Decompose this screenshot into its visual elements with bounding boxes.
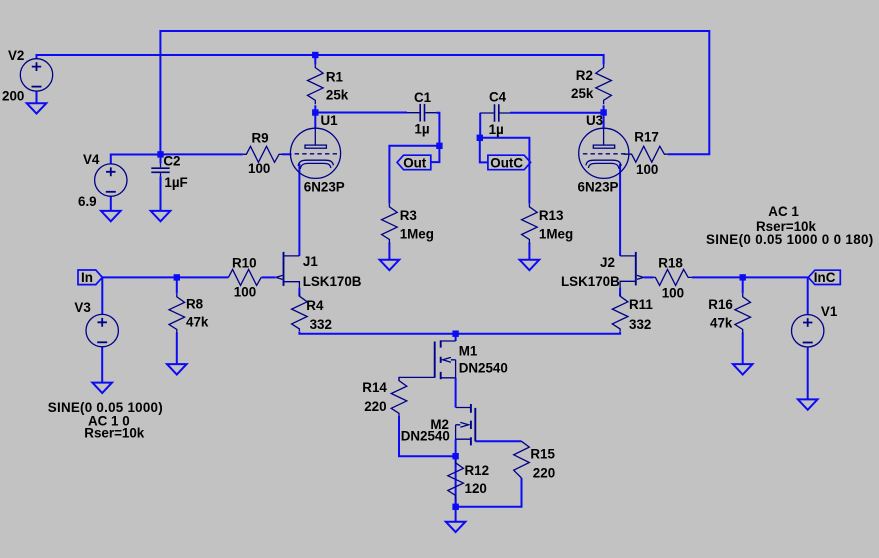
svg-text:R3: R3 bbox=[400, 208, 417, 223]
svg-text:120: 120 bbox=[465, 481, 487, 496]
capacitor C4 bbox=[480, 104, 510, 122]
svg-text:R12: R12 bbox=[465, 463, 490, 478]
wire In flag to R10 bbox=[102, 276, 228, 278]
resistor R2 bbox=[596, 65, 612, 105]
wire V4 to ground bbox=[110, 197, 112, 211]
junction InC node bbox=[740, 274, 746, 280]
svg-text:U3: U3 bbox=[586, 113, 603, 128]
wire M2 gate to R15 bbox=[475, 440, 521, 442]
wire Out node to R3 bbox=[389, 146, 439, 204]
svg-text:200: 200 bbox=[2, 89, 24, 104]
wire R18 to InC flag bbox=[692, 276, 808, 278]
wire OutC node to R13 bbox=[480, 138, 530, 204]
ground R13 bbox=[520, 260, 540, 270]
resistor R3 bbox=[382, 204, 398, 244]
triode U3 6N23P bbox=[579, 128, 629, 178]
svg-text:V3: V3 bbox=[74, 300, 90, 315]
svg-text:R13: R13 bbox=[539, 208, 564, 223]
transistor J2 LSK170B bbox=[620, 252, 643, 288]
wire R12 bottom bbox=[455, 499, 457, 522]
ground R3 bbox=[380, 260, 400, 270]
wire C4 right to node plate U3 bbox=[510, 112, 604, 114]
svg-text:Rser=10k: Rser=10k bbox=[84, 426, 144, 441]
wire R10 to J1 gate bbox=[262, 276, 276, 278]
svg-text:1Meg: 1Meg bbox=[400, 226, 434, 241]
svg-text:R15: R15 bbox=[530, 447, 555, 462]
wire M1 drain lead bbox=[455, 334, 457, 341]
svg-text:DN2540: DN2540 bbox=[401, 429, 450, 444]
node flag Out bbox=[397, 155, 431, 170]
resistor R12 bbox=[448, 460, 464, 500]
transistor M2 DN2540 bbox=[456, 404, 476, 445]
wire V2 to ground bbox=[36, 91, 38, 103]
svg-text:220: 220 bbox=[533, 465, 555, 480]
resistor R11 bbox=[612, 293, 628, 331]
node flag InC bbox=[808, 270, 840, 285]
svg-text:47k: 47k bbox=[710, 316, 733, 331]
node flag In bbox=[78, 270, 102, 285]
wire source rail R4-R11 bbox=[299, 332, 620, 334]
wire InC node to R16 bbox=[742, 277, 744, 293]
wire node plate U1 to C1 bbox=[315, 112, 407, 114]
transistor J1 LSK170B bbox=[276, 252, 300, 288]
wire R8 to ground bbox=[176, 333, 178, 365]
capacitor C2 bbox=[151, 164, 169, 177]
ground R8 bbox=[167, 364, 187, 374]
svg-text:R2: R2 bbox=[576, 68, 593, 83]
wire R2 bottom lead bbox=[603, 105, 605, 112]
wire M2 source down bbox=[455, 439, 457, 459]
wire R12 node to R15 node bbox=[455, 456, 457, 507]
svg-text:V1: V1 bbox=[821, 304, 838, 319]
wire In flag to V3 bbox=[101, 277, 103, 314]
svg-text:R10: R10 bbox=[232, 256, 257, 271]
resistor R14 bbox=[391, 378, 407, 418]
svg-text:Out: Out bbox=[403, 155, 427, 170]
wire In node to R8 bbox=[176, 277, 178, 293]
wire J2 source to R11 bbox=[619, 288, 621, 297]
junction U3 plate node bbox=[600, 109, 606, 115]
svg-text:J2: J2 bbox=[600, 255, 615, 270]
svg-text:J1: J1 bbox=[303, 254, 318, 269]
wire R1 bottom lead bbox=[314, 105, 316, 112]
svg-text:1µF: 1µF bbox=[164, 175, 187, 190]
junction M2 source node bbox=[452, 453, 458, 459]
resistor R13 bbox=[522, 204, 538, 244]
svg-text:In: In bbox=[81, 270, 93, 285]
svg-text:R4: R4 bbox=[306, 298, 324, 313]
ground C2 bbox=[151, 211, 171, 221]
svg-text:R14: R14 bbox=[362, 380, 387, 395]
svg-text:R8: R8 bbox=[186, 297, 204, 312]
wire V1 to ground bbox=[807, 347, 809, 399]
triode U1 6N23P bbox=[290, 128, 340, 178]
svg-text:LSK170B: LSK170B bbox=[561, 274, 620, 289]
voltage source V4 bbox=[95, 164, 127, 196]
svg-text:25k: 25k bbox=[571, 86, 594, 101]
resistor R4 bbox=[292, 293, 308, 331]
svg-text:1µ: 1µ bbox=[414, 122, 429, 137]
wire V2 plate supply bbox=[37, 55, 604, 65]
svg-text:220: 220 bbox=[364, 399, 386, 414]
wire U1 cathode to J1 drain bbox=[298, 164, 300, 256]
svg-text:C1: C1 bbox=[414, 90, 432, 105]
wire R15 bottom to ground node bbox=[456, 478, 522, 507]
wire J2 gate to R18 bbox=[644, 276, 654, 278]
ground R16 bbox=[733, 364, 753, 374]
svg-text:R17: R17 bbox=[634, 130, 659, 145]
node flag OutC bbox=[488, 155, 531, 170]
svg-text:AC 1: AC 1 bbox=[768, 204, 799, 219]
svg-text:6.9: 6.9 bbox=[78, 194, 97, 209]
svg-text:C2: C2 bbox=[163, 153, 180, 168]
ground V3 bbox=[92, 383, 112, 393]
svg-text:V4: V4 bbox=[83, 152, 100, 167]
svg-text:R11: R11 bbox=[629, 297, 653, 312]
wire U3 cathode to J2 drain bbox=[619, 164, 621, 256]
wire R13 bottom to ground bbox=[528, 243, 530, 260]
resistor R18 bbox=[654, 269, 692, 285]
svg-text:6N23P: 6N23P bbox=[304, 179, 345, 194]
voltage source V3 bbox=[86, 314, 118, 346]
svg-text:332: 332 bbox=[310, 317, 332, 332]
svg-text:U1: U1 bbox=[321, 113, 339, 128]
resistor R10 bbox=[228, 269, 261, 285]
svg-text:100: 100 bbox=[234, 285, 256, 300]
wire M1 source to M2 drain bbox=[455, 378, 457, 408]
junction Out node bbox=[436, 143, 442, 149]
svg-text:M1: M1 bbox=[459, 344, 478, 359]
wire R1 top lead bbox=[314, 55, 316, 65]
wire V3 to ground bbox=[101, 347, 103, 383]
svg-text:R16: R16 bbox=[708, 297, 733, 312]
svg-text:C4: C4 bbox=[489, 89, 507, 104]
svg-text:1µ: 1µ bbox=[489, 122, 504, 137]
svg-text:100: 100 bbox=[636, 162, 658, 177]
wire U1 grid from R9 bbox=[282, 153, 292, 155]
junction In node bbox=[174, 274, 180, 280]
svg-text:6N23P: 6N23P bbox=[578, 179, 619, 194]
resistor R1 bbox=[308, 65, 324, 105]
resistor R15 bbox=[514, 441, 530, 478]
wire C2 bottom lead bbox=[160, 176, 162, 211]
wire OutC node to flag bbox=[480, 138, 488, 163]
wire C4 left to OutC node bbox=[479, 113, 481, 138]
resistor R8 bbox=[169, 294, 185, 334]
wire U3 anode lead bbox=[603, 113, 605, 129]
wire InC flag to V1 bbox=[807, 277, 809, 314]
wire Out node to flag bbox=[431, 146, 440, 162]
ground R12 bbox=[446, 522, 466, 532]
svg-text:SINE(0 0.05 1000 0 0 180): SINE(0 0.05 1000 0 0 180) bbox=[706, 232, 874, 247]
voltage source V2 bbox=[20, 59, 52, 91]
svg-text:R9: R9 bbox=[252, 131, 269, 146]
svg-text:OutC: OutC bbox=[490, 155, 523, 170]
wire R14 bottom to node bbox=[399, 416, 456, 456]
junction M1 drain on rail bbox=[452, 331, 458, 337]
svg-text:DN2540: DN2540 bbox=[459, 361, 508, 376]
svg-text:V2: V2 bbox=[8, 48, 24, 63]
svg-text:R1: R1 bbox=[326, 70, 344, 85]
svg-text:47k: 47k bbox=[186, 315, 209, 330]
ground V1 bbox=[798, 399, 818, 409]
wire top feedback rail bbox=[160, 31, 709, 154]
capacitor C1 bbox=[407, 104, 436, 122]
ground V4 bbox=[101, 211, 121, 221]
wire V4 to C2 node bbox=[111, 155, 161, 164]
svg-text:25k: 25k bbox=[326, 87, 349, 102]
resistor R16 bbox=[735, 294, 751, 334]
svg-text:100: 100 bbox=[662, 286, 684, 301]
resistor R17 bbox=[624, 146, 668, 162]
wire U1 anode lead bbox=[314, 113, 316, 129]
junction U1 plate node bbox=[312, 109, 318, 115]
wire C2 top lead bbox=[160, 154, 162, 163]
wire C1 right to Out node bbox=[436, 113, 439, 146]
wire M1 gate to R14 bbox=[399, 377, 435, 380]
junction R1 top bbox=[312, 52, 318, 58]
junction OutC node bbox=[477, 135, 483, 141]
wire C2 node to R9 bbox=[161, 153, 243, 155]
transistor M1 DN2540 bbox=[435, 340, 456, 379]
wire J1 source to R4 bbox=[298, 288, 300, 297]
wire R3 bottom to ground bbox=[388, 243, 390, 260]
wire R16 to ground bbox=[742, 333, 744, 365]
voltage source V1 bbox=[792, 315, 824, 347]
svg-text:InC: InC bbox=[814, 270, 836, 285]
svg-text:1Meg: 1Meg bbox=[539, 226, 573, 241]
ground V2 bbox=[27, 103, 47, 113]
svg-text:LSK170B: LSK170B bbox=[303, 274, 362, 289]
svg-text:332: 332 bbox=[629, 317, 651, 332]
svg-text:R18: R18 bbox=[658, 256, 683, 271]
junction R12/R15 ground node bbox=[452, 504, 458, 510]
junction C2/V4/R9 node bbox=[157, 151, 163, 157]
svg-text:100: 100 bbox=[248, 161, 270, 176]
resistor R9 bbox=[243, 146, 283, 162]
